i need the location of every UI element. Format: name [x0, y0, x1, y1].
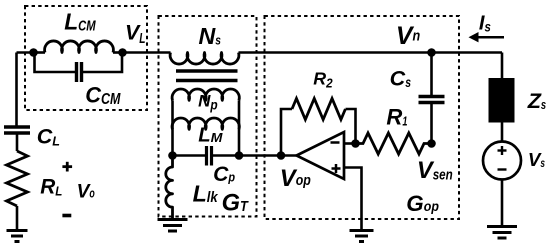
- source V_s: [483, 142, 521, 180]
- resistor R_2: [292, 99, 345, 120]
- svg-text:Zs: Zs: [527, 88, 546, 113]
- svg-text:CCM: CCM: [85, 83, 121, 108]
- label plus V_o: [62, 162, 72, 172]
- transformer secondary N_s: [170, 53, 239, 65]
- wire C_CM branch left: [35, 53, 76, 73]
- resistor R_1: [356, 133, 432, 154]
- ground (L_lk): [158, 220, 188, 232]
- node C_p left dot: [168, 151, 177, 160]
- svg-text:Cp: Cp: [213, 163, 235, 186]
- node V_L left dot: [29, 48, 38, 57]
- wire C_CM branch right: [83, 53, 122, 73]
- transformer primary N_p: [172, 89, 239, 100]
- svg-text:R2: R2: [313, 69, 332, 91]
- dashed box G_T: [159, 16, 257, 217]
- wire Z_s to V_s: [501, 123, 504, 142]
- node V_n dot: [427, 48, 436, 57]
- wire C_p to right node: [213, 154, 239, 157]
- node V_L right dot: [118, 48, 127, 57]
- wire plus input: [344, 168, 362, 231]
- wire to op-amp output: [239, 154, 296, 157]
- svg-text:VL: VL: [125, 21, 145, 47]
- op-amp plus marking: [332, 164, 341, 173]
- capacitor C_s: [419, 97, 445, 103]
- svg-text:R1: R1: [386, 105, 407, 130]
- resistor R_L: [7, 151, 28, 206]
- svg-text:Vsen: Vsen: [417, 158, 453, 184]
- wire dot to inductor: [34, 51, 46, 54]
- capacitor C_p: [207, 146, 212, 166]
- op-amp minus marking: [331, 141, 340, 144]
- wire V_n to C_s: [430, 53, 433, 96]
- wire right branch down: [501, 53, 504, 79]
- wire V_L to transformer: [123, 51, 171, 54]
- wire primary right side: [238, 100, 241, 155]
- svg-text:Vo: Vo: [77, 181, 95, 202]
- label minus V_o: [62, 214, 71, 218]
- svg-text:Vs: Vs: [528, 149, 545, 170]
- svg-text:LM: LM: [198, 125, 223, 147]
- svg-text:CL: CL: [37, 123, 60, 148]
- wire C_s to V_sen: [430, 104, 433, 144]
- node V_op dot: [277, 151, 286, 160]
- current arrow I_s: [469, 32, 505, 42]
- impedance Z_s: [489, 78, 515, 123]
- wire R_2 left vertical: [281, 109, 292, 156]
- wire C_L to R_L: [16, 135, 19, 152]
- svg-text:Ns: Ns: [199, 23, 221, 49]
- wire node to C_p: [173, 154, 206, 157]
- wire minus input: [344, 142, 356, 145]
- svg-text:Is: Is: [479, 13, 491, 35]
- dashed box G_op: [265, 16, 460, 219]
- svg-text:RL: RL: [40, 176, 62, 199]
- ground (left, R_L): [7, 231, 28, 242]
- capacitor C_CM: [77, 62, 82, 82]
- ground (V_s): [487, 227, 517, 239]
- wire top from transformer to right: [239, 51, 503, 54]
- wire R_2 right vertical: [346, 109, 356, 144]
- wire primary left side: [171, 100, 174, 155]
- svg-text:Cs: Cs: [390, 66, 412, 91]
- svg-text:Gop: Gop: [406, 191, 439, 216]
- wire left vertical: [15, 53, 18, 126]
- wire V_s to ground: [501, 180, 504, 227]
- wire top-left: [17, 51, 34, 54]
- node minus input dot: [351, 139, 360, 148]
- V_s minus marking: [498, 168, 507, 170]
- svg-text:Vop: Vop: [280, 165, 311, 192]
- svg-text:Vn: Vn: [396, 22, 420, 50]
- svg-text:Np: Np: [198, 92, 218, 113]
- magnetizing inductor L_M: [172, 118, 239, 129]
- node C_p right dot: [235, 151, 244, 160]
- V_s plus marking: [498, 146, 507, 155]
- svg-text:LCM: LCM: [64, 8, 96, 34]
- leakage inductor L_lk: [166, 156, 173, 220]
- wire R_L to ground: [16, 206, 19, 230]
- ground (op-amp): [350, 231, 374, 242]
- op-amp U1: [297, 132, 345, 179]
- wire inductor to right dot: [113, 51, 123, 54]
- capacitor C_L: [4, 127, 30, 133]
- inductor L_CM: [45, 41, 114, 53]
- transformer core: [176, 71, 238, 81]
- svg-text:GT: GT: [222, 190, 249, 216]
- dashed box CM filter: [25, 6, 147, 110]
- node V_sen dot: [427, 139, 436, 148]
